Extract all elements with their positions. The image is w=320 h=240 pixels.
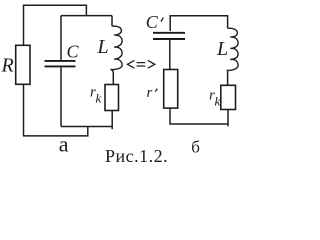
svg-text:Рис.1.2.: Рис.1.2. <box>105 146 168 166</box>
wire L branch top <box>111 16 113 27</box>
svg-text:L: L <box>216 38 228 60</box>
wire inner top <box>61 15 112 17</box>
svg-text:k: k <box>96 91 102 106</box>
svg-text:k: k <box>215 94 221 109</box>
svg-text:б: б <box>191 137 200 156</box>
wire rk bottom stub <box>111 111 113 130</box>
svg-text:R: R <box>1 55 14 77</box>
svg-text:a: a <box>59 132 69 157</box>
resistor r' <box>164 70 178 109</box>
equivalence symbol <box>127 60 154 68</box>
svg-text:L: L <box>97 36 109 58</box>
wire left vertical below R <box>23 84 25 136</box>
wire top (circuit b) <box>170 16 227 31</box>
capacitor C' plates <box>153 33 185 39</box>
capacitor C plates <box>45 61 76 67</box>
wire r' bottom and bottom wire <box>170 108 228 124</box>
wire capacitor branch lower <box>60 67 62 126</box>
wire C' to r' <box>169 40 171 70</box>
wire capacitor branch upper <box>60 16 62 60</box>
wire inner bottom <box>61 126 112 128</box>
resistor rk (circuit b) <box>221 85 236 109</box>
inductor L (circuit a) <box>110 26 122 73</box>
wire rk' bottom stub <box>227 110 229 127</box>
wire coil to rk (circuit b) <box>227 72 229 86</box>
wire outer bottom with riser to inner bottom <box>23 127 88 136</box>
svg-text:C: C <box>146 12 159 32</box>
svg-text:C: C <box>67 42 80 62</box>
wire coil bottom to rk <box>112 72 114 84</box>
svg-text:r: r <box>147 85 153 101</box>
wire outer top left loop (circuit a) <box>24 5 87 45</box>
resistor rk (circuit a) <box>105 85 119 111</box>
inductor L (circuit b) <box>227 28 238 71</box>
resistor R <box>16 45 30 84</box>
